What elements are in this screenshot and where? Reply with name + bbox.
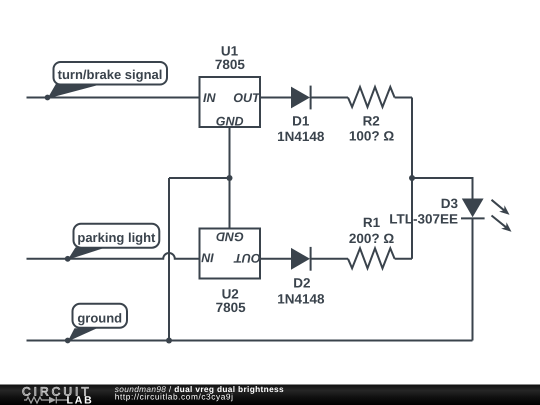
svg-text:OUT: OUT	[233, 91, 261, 105]
svg-text:GND: GND	[216, 229, 244, 243]
wire node A to LED anode	[412, 178, 473, 199]
svg-text:OUT: OUT	[233, 251, 261, 265]
wire LED cathode down	[472, 218, 474, 340]
flag parking light	[68, 224, 160, 260]
node ground flag anchor	[65, 338, 71, 344]
wire D1 to R2	[311, 97, 348, 99]
wire U1 GND down	[229, 127, 231, 178]
svg-text:100? Ω: 100? Ω	[349, 129, 395, 144]
svg-text:D2: D2	[293, 275, 310, 290]
wire parking light input with hop	[27, 253, 200, 259]
wire U2 OUT to D2	[260, 258, 291, 260]
svg-text:200? Ω: 200? Ω	[349, 231, 395, 246]
footer bar	[0, 385, 540, 405]
wire R2 column down to node A	[411, 98, 413, 179]
svg-text:LTL-307EE: LTL-307EE	[389, 211, 458, 226]
node GND junction	[227, 175, 233, 181]
resistor R1	[348, 248, 395, 268]
wire D2 to R1	[311, 258, 348, 260]
svg-text:R2: R2	[363, 113, 380, 128]
node ground rail junction	[166, 338, 172, 344]
wire GND junction left	[169, 177, 230, 179]
svg-text:GND: GND	[216, 114, 244, 128]
svg-text:IN: IN	[201, 250, 214, 264]
wire U1 OUT to D1	[260, 97, 291, 99]
CircuitLab logo squiggle resistor and diode	[24, 397, 68, 404]
node A LED anode junction	[409, 175, 415, 181]
wire node A down to R1 column	[411, 178, 413, 259]
svg-text:http://circuitlab.com/c3cya9j: http://circuitlab.com/c3cya9j	[115, 392, 234, 402]
svg-text:IN: IN	[203, 91, 216, 105]
svg-text:LAB: LAB	[67, 395, 94, 405]
svg-text:7805: 7805	[215, 57, 246, 72]
flag turn/brake signal	[48, 62, 168, 99]
diode D1	[291, 86, 311, 110]
wire R2 to node A	[395, 97, 412, 99]
wire R1 to column	[395, 258, 412, 260]
voltage regulator U2 box rotated 180	[200, 229, 261, 279]
diode D2	[291, 247, 311, 271]
svg-text:turn/brake signal: turn/brake signal	[58, 67, 163, 82]
node parking flag anchor	[65, 256, 71, 262]
svg-text:D3: D3	[441, 196, 459, 211]
svg-text:ground: ground	[77, 310, 122, 325]
svg-text:1N4148: 1N4148	[277, 129, 325, 144]
LED D3	[461, 199, 512, 232]
node turn/brake flag anchor	[45, 95, 51, 101]
wire GND junction to U2 GND	[229, 178, 231, 229]
svg-text:parking light: parking light	[77, 230, 156, 245]
wire GND drop column	[168, 178, 170, 341]
voltage regulator U1 box	[200, 77, 261, 127]
svg-text:D1: D1	[292, 114, 310, 129]
svg-text:7805: 7805	[216, 300, 247, 315]
flag ground	[68, 304, 127, 342]
svg-text:1N4148: 1N4148	[277, 291, 325, 306]
svg-text:R1: R1	[363, 215, 381, 230]
wire ground rail	[27, 340, 473, 342]
resistor R2	[348, 87, 395, 107]
wire turn/brake signal input	[27, 97, 200, 99]
